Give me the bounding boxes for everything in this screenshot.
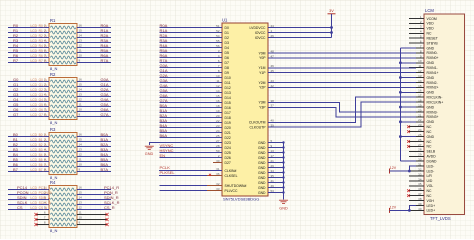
- svg-text:D19: D19: [225, 121, 231, 125]
- svg-text:LCM: LCM: [425, 8, 434, 13]
- svg-text:19: 19: [418, 103, 422, 107]
- svg-text:LCD_PC14_A: LCD_PC14_A: [31, 186, 52, 190]
- svg-text:D5: D5: [225, 51, 229, 55]
- wire R2 left pin 3 net G2: [8, 87, 49, 92]
- junction U1 GND pin 29: [282, 166, 284, 168]
- svg-text:12V: 12V: [390, 205, 397, 209]
- wire R1 left pin 2 net R1: [8, 28, 49, 33]
- svg-text:NC: NC: [427, 125, 432, 129]
- wire net VSYNC to U1 D24: [159, 143, 222, 148]
- op-amp U1 SN75LVDS83BDGG body: [222, 18, 268, 202]
- svg-text:GND: GND: [258, 146, 266, 150]
- no-connect pins R4 row 6: [34, 213, 108, 216]
- wire GND bus vertical at connector: [400, 48, 416, 161]
- svg-text:R4: R4: [50, 180, 56, 185]
- svg-text:PLKSEL: PLKSEL: [160, 170, 176, 175]
- svg-text:GND: GND: [279, 207, 288, 211]
- svg-text:GND: GND: [258, 166, 266, 170]
- wire Y3M to RXIN3- (jog down): [268, 102, 416, 112]
- svg-text:RESET: RESET: [427, 36, 438, 40]
- svg-text:LCD_R4_A: LCD_R4_A: [31, 44, 48, 48]
- svg-text:GND: GND: [258, 191, 266, 195]
- svg-text:LCD_B6_A: LCD_B6_A: [31, 163, 48, 167]
- svg-text:CLKSEL: CLKSEL: [225, 174, 238, 178]
- junction GND bus pin 25: [399, 135, 402, 138]
- svg-text:GND: GND: [427, 135, 435, 139]
- svg-text:G7: G7: [13, 112, 19, 117]
- svg-text:RXIN2+: RXIN2+: [427, 86, 439, 90]
- svg-text:GND: GND: [258, 171, 266, 175]
- junction U1 GND pin 41: [282, 181, 284, 183]
- svg-text:LCD_R7_A: LCD_R7_A: [31, 59, 48, 63]
- U1 left pin names and numbers: [216, 24, 246, 193]
- wire R3 right pin 10 net B6A: [77, 162, 111, 167]
- wire U1 GND bus: [268, 143, 284, 200]
- svg-text:39: 39: [418, 202, 422, 206]
- svg-text:D6: D6: [225, 56, 229, 60]
- wire R3 right pin 16 net B0A: [77, 132, 111, 137]
- svg-text:LCD_SCLK_A: LCD_SCLK_A: [31, 201, 52, 205]
- svg-text:D17: D17: [225, 111, 231, 115]
- wire 12V to LED- pins: [390, 166, 417, 171]
- wire R4 right pin 12 net CS_R: [77, 205, 115, 210]
- U1 right pin names and numbers: [249, 24, 274, 195]
- svg-text:GND: GND: [427, 61, 435, 65]
- wire R2 left pin 5 net G4: [8, 97, 49, 102]
- wire R1 right pin 12 net R4A: [77, 43, 111, 48]
- svg-text:CS: CS: [17, 205, 23, 210]
- wire U1 IOVCC pin26 to 3V: [268, 37, 332, 39]
- svg-text:D25: D25: [225, 151, 231, 155]
- svg-text:TFT_LVDS: TFT_LVDS: [430, 216, 451, 221]
- svg-text:D22: D22: [225, 136, 231, 140]
- svg-text:GND: GND: [258, 151, 266, 155]
- svg-text:LED-: LED-: [427, 169, 435, 173]
- svg-text:32: 32: [418, 167, 422, 171]
- wire R4 left pin 4 net SCLK: [8, 200, 52, 205]
- power port 3V: [328, 9, 336, 14]
- wire R3 left pin 6 net B5: [8, 157, 49, 162]
- svg-text:17: 17: [418, 94, 422, 98]
- svg-text:NC: NC: [427, 145, 432, 149]
- junction U1 GND pin 13: [282, 151, 284, 153]
- svg-text:D11: D11: [225, 81, 231, 85]
- junction U1 GND pin 49: [282, 186, 284, 188]
- wire R2 right pin 13 net G3A: [77, 92, 111, 97]
- svg-text:22: 22: [418, 118, 422, 122]
- wire R1 right pin 11 net R5A: [77, 48, 111, 53]
- wire R3 left pin 7 net B6: [8, 162, 49, 167]
- svg-text:8_N: 8_N: [50, 120, 57, 125]
- svg-text:16: 16: [418, 89, 422, 93]
- svg-text:37: 37: [418, 192, 422, 196]
- wire R1 right pin 13 net R3A: [77, 38, 111, 43]
- svg-text:D1: D1: [225, 31, 229, 35]
- svg-text:R7: R7: [13, 58, 19, 63]
- svg-text:LED-: LED-: [427, 164, 435, 168]
- svg-text:VCOM: VCOM: [427, 17, 437, 21]
- wire R1 left pin 6 net R5: [8, 48, 49, 53]
- no-connect pins R4 row 7: [34, 218, 108, 221]
- wire R2 left pin 4 net G3: [8, 92, 49, 97]
- svg-text:SN75LVDS83BDGG: SN75LVDS83BDGG: [223, 197, 259, 202]
- svg-text:18: 18: [418, 99, 422, 103]
- wire Y0P to connector: [268, 57, 416, 59]
- svg-text:LCD_G6_A: LCD_G6_A: [31, 108, 48, 112]
- wire R4 right pin 13 net SCLK_R: [77, 200, 120, 205]
- svg-text:RXIN0+: RXIN0+: [427, 56, 439, 60]
- svg-text:LCD_B1_A: LCD_B1_A: [31, 138, 48, 142]
- svg-text:U/D: U/D: [427, 179, 433, 183]
- svg-text:Y1P: Y1P: [259, 71, 266, 75]
- svg-text:LED+: LED+: [427, 204, 436, 208]
- junction U1 GND pin 9: [282, 146, 284, 148]
- svg-text:RXIN1-: RXIN1-: [427, 66, 438, 70]
- wire R4 left pin 2 net PCON: [8, 190, 53, 195]
- power port 12V for LED+: [390, 205, 397, 213]
- svg-text:LCD_R0_A: LCD_R0_A: [31, 24, 48, 28]
- junction 3V/LVDDVCC: [330, 26, 333, 29]
- svg-text:21: 21: [418, 113, 422, 117]
- svg-text:B7A: B7A: [101, 167, 109, 172]
- svg-text:GND: GND: [427, 91, 435, 95]
- wire CLKOUTP to RXCLKIN+ (jog up): [268, 102, 416, 127]
- power port 12V for LED-: [390, 166, 397, 173]
- svg-text:CLKOUTP: CLKOUTP: [249, 126, 266, 130]
- svg-text:CLKIN#: CLKIN#: [225, 169, 237, 173]
- junction U1 GND pin 53: [282, 191, 284, 193]
- svg-text:RXIN3-: RXIN3-: [427, 110, 438, 114]
- svg-text:D27: D27: [225, 161, 231, 165]
- svg-text:NC: NC: [427, 194, 432, 198]
- svg-text:RXIN0-: RXIN0-: [427, 51, 438, 55]
- bare pin D27: [213, 162, 222, 164]
- wire net HSYNC to U1 D25: [159, 148, 222, 153]
- svg-text:CLKOUTM: CLKOUTM: [249, 121, 266, 125]
- svg-text:D13: D13: [225, 91, 231, 95]
- wire U1 IOVCC pin1 to 3V: [268, 32, 332, 34]
- svg-text:LED+: LED+: [427, 209, 436, 213]
- svg-text:SHUTDOWN#: SHUTDOWN#: [225, 184, 247, 188]
- svg-text:R2: R2: [50, 72, 56, 77]
- svg-text:27: 27: [418, 143, 422, 147]
- wire Y2P to connector: [268, 86, 416, 88]
- wire R2 left pin 7 net G6: [8, 107, 49, 112]
- wire R3 left pin 8 net B7: [8, 167, 49, 172]
- wire R2 left pin 1 net G0: [8, 77, 49, 82]
- resistor network R3: [39, 127, 87, 180]
- wire R2 right pin 16 net G0A: [77, 77, 111, 82]
- svg-text:10: 10: [418, 59, 422, 63]
- connector J1 LCM body: [424, 8, 464, 221]
- svg-text:AVDD: AVDD: [427, 155, 437, 159]
- svg-text:VGL: VGL: [427, 184, 434, 188]
- svg-text:40: 40: [418, 207, 422, 211]
- wire net PCLK to U1 CLKIN#: [159, 165, 222, 170]
- wire R3 left pin 4 net B3: [8, 147, 49, 152]
- svg-text:D4: D4: [225, 46, 229, 50]
- svg-text:R7A: R7A: [101, 58, 109, 63]
- resistor network R1: [39, 18, 87, 71]
- junction U1 GND pin 34: [282, 171, 284, 173]
- wire R2 right pin 11 net G5A: [77, 102, 111, 107]
- wire R1 right pin 16 net R0A: [77, 23, 111, 28]
- svg-text:D23: D23: [225, 141, 231, 145]
- svg-text:33: 33: [418, 172, 422, 176]
- wire Y3P to RXIN3+ (jog down): [268, 107, 416, 117]
- svg-text:LCD_PCON_A: LCD_PCON_A: [31, 191, 53, 195]
- wire to U1 SHUTDOWN#: [159, 185, 222, 187]
- svg-text:L/R: L/R: [427, 174, 433, 178]
- ground symbol below U1: [279, 200, 288, 210]
- svg-text:LCD_G7_A: LCD_G7_A: [31, 113, 48, 117]
- junction GND bus pin 16: [399, 91, 402, 94]
- svg-text:36: 36: [418, 187, 422, 191]
- svg-text:LCD_B7_A: LCD_B7_A: [31, 168, 48, 172]
- svg-text:D16: D16: [225, 106, 231, 110]
- wire R1 left pin 5 net R4: [8, 43, 49, 48]
- wire R3 right pin 11 net B5A: [77, 157, 111, 162]
- svg-text:NC: NC: [427, 130, 432, 134]
- svg-text:STBYB: STBYB: [427, 41, 439, 45]
- svg-text:GND: GND: [258, 181, 266, 185]
- svg-text:R1: R1: [50, 18, 56, 23]
- wire R4 right pin 14 net SDIN_R: [77, 195, 119, 200]
- wire R1 right pin 10 net R6A: [77, 53, 111, 58]
- wire R4 left pin 3 net SDIN: [8, 195, 51, 200]
- svg-text:GND: GND: [427, 105, 435, 109]
- svg-text:Y0P: Y0P: [259, 56, 266, 60]
- wire R2 right pin 9 net G7A: [77, 112, 111, 117]
- svg-text:D7: D7: [225, 61, 229, 65]
- svg-text:12V: 12V: [390, 166, 397, 170]
- svg-text:RXCLKIN+: RXCLKIN+: [427, 100, 444, 104]
- svg-text:28: 28: [418, 148, 422, 152]
- wire R2 right pin 15 net G1A: [77, 82, 111, 87]
- svg-text:11: 11: [418, 64, 421, 68]
- svg-text:PLLVCC: PLLVCC: [225, 189, 238, 193]
- svg-text:8_N: 8_N: [50, 228, 57, 233]
- junction GND bus pin 13: [399, 76, 402, 79]
- svg-text:NC: NC: [427, 32, 432, 36]
- svg-text:LCD_G3_A: LCD_G3_A: [31, 93, 48, 97]
- svg-text:D2: D2: [225, 36, 229, 40]
- wire net PLKSEL to U1 CLKSEL: [159, 170, 222, 176]
- wire R3 right pin 12 net B4A: [77, 152, 111, 157]
- svg-text:8_N: 8_N: [50, 66, 57, 71]
- svg-text:30: 30: [418, 158, 422, 162]
- wire R2 right pin 10 net G6A: [77, 107, 111, 112]
- svg-text:D15: D15: [225, 101, 231, 105]
- svg-text:Y2P: Y2P: [259, 86, 266, 90]
- svg-text:23: 23: [418, 123, 422, 127]
- svg-text:GND: GND: [427, 46, 435, 50]
- svg-text:VDD: VDD: [427, 22, 435, 26]
- svg-text:RXIN3+: RXIN3+: [427, 115, 439, 119]
- svg-text:29: 29: [418, 153, 422, 157]
- svg-text:GND: GND: [427, 76, 435, 80]
- wire R3 left pin 5 net B4: [8, 152, 49, 157]
- wire Y2M to connector: [268, 82, 416, 84]
- svg-text:D18: D18: [225, 116, 231, 120]
- wire R2 left pin 6 net G5: [8, 102, 49, 107]
- svg-text:LCD_G5_A: LCD_G5_A: [31, 103, 48, 107]
- svg-text:D21: D21: [225, 131, 231, 135]
- svg-text:D0: D0: [225, 26, 229, 30]
- svg-text:D10: D10: [225, 76, 231, 80]
- wire U1 LVDDVCC to 3V: [268, 27, 332, 29]
- wire R1 left pin 4 net R3: [8, 38, 49, 43]
- wire to U1 PLLVCC: [159, 190, 222, 192]
- wire Y0M to connector: [268, 52, 416, 54]
- svg-text:LCD_R6_A: LCD_R6_A: [31, 54, 48, 58]
- wire R4 right pin 15 net PON_R: [77, 190, 118, 195]
- svg-text:LCD_SDIN_A: LCD_SDIN_A: [31, 196, 52, 200]
- ground symbol near D23: [145, 146, 154, 156]
- svg-text:14: 14: [418, 79, 422, 83]
- wire D23 to ground: [149, 143, 222, 146]
- wire R3 right pin 15 net B1A: [77, 137, 111, 142]
- no-connect pins R4 row 8: [34, 223, 108, 226]
- svg-text:VGH: VGH: [427, 199, 435, 203]
- svg-text:31: 31: [418, 163, 422, 167]
- svg-text:GND: GND: [427, 120, 435, 124]
- svg-text:GND: GND: [258, 156, 266, 160]
- svg-text:LCD_R1_A: LCD_R1_A: [31, 29, 48, 33]
- svg-text:26: 26: [418, 138, 422, 142]
- wire R3 right pin 13 net B3A: [77, 147, 111, 152]
- svg-text:3V: 3V: [329, 9, 334, 13]
- svg-text:LCD_G0_A: LCD_G0_A: [31, 78, 48, 82]
- wires from nets into U1 data pins D0-D22: [159, 23, 222, 138]
- svg-text:LCD_B0_A: LCD_B0_A: [31, 133, 48, 137]
- svg-text:Y0M: Y0M: [259, 51, 266, 55]
- svg-text:15: 15: [418, 84, 422, 88]
- junction U1 GND pin 17: [282, 156, 284, 158]
- svg-text:35: 35: [418, 182, 422, 186]
- junction U1 GND pin 35: [282, 176, 284, 178]
- svg-text:LCD_B2_A: LCD_B2_A: [31, 143, 48, 147]
- svg-text:RXIN1+: RXIN1+: [427, 71, 439, 75]
- wire R1 left pin 7 net R6: [8, 53, 49, 58]
- wire R2 right pin 14 net G2A: [77, 87, 111, 92]
- svg-text:G7A: G7A: [101, 112, 109, 117]
- svg-text:D9: D9: [225, 71, 229, 75]
- junction GND bus pin 10: [399, 61, 402, 64]
- svg-text:GND: GND: [258, 161, 266, 165]
- wire R3 left pin 1 net B0: [8, 132, 49, 137]
- svg-text:20: 20: [418, 108, 422, 112]
- svg-text:24: 24: [418, 128, 422, 132]
- junction U1 GND pin 21: [282, 161, 284, 163]
- wire R3 right pin 14 net B2A: [77, 142, 111, 147]
- svg-text:U1: U1: [222, 18, 228, 23]
- svg-text:34: 34: [418, 177, 422, 181]
- svg-text:D26: D26: [225, 156, 231, 160]
- svg-text:D3: D3: [225, 41, 229, 45]
- junction U1 GND pin 5: [282, 141, 284, 143]
- svg-text:GND: GND: [258, 176, 266, 180]
- wire net EN to U1 D26: [159, 153, 222, 158]
- junction 12V LED+: [408, 209, 411, 212]
- wire R2 left pin 8 net G7: [8, 112, 49, 117]
- wire 3V vertical rail: [331, 14, 333, 38]
- wire R1 left pin 3 net R2: [8, 33, 49, 38]
- svg-text:GND: GND: [258, 141, 266, 145]
- svg-text:NC: NC: [427, 189, 432, 193]
- wire Y1P to connector: [268, 72, 416, 74]
- junction 12V LED-: [408, 170, 411, 173]
- svg-text:LCD_B4_A: LCD_B4_A: [31, 153, 48, 157]
- wire CLKOUTM to RXCLKIN- (jog up): [268, 97, 416, 122]
- wire 12V to LED+ pins: [390, 205, 417, 210]
- svg-text:IOVCC: IOVCC: [255, 31, 266, 35]
- svg-text:SELB: SELB: [427, 150, 436, 154]
- svg-text:VDD: VDD: [427, 27, 435, 31]
- svg-text:LCD_G4_A: LCD_G4_A: [31, 98, 48, 102]
- wire R1 left pin 1 net R0: [8, 23, 49, 28]
- wire R2 right pin 12 net G4A: [77, 97, 111, 102]
- svg-text:25: 25: [418, 133, 422, 137]
- svg-text:12: 12: [418, 69, 422, 73]
- wire R4 left pin 1 net PC14: [8, 185, 51, 190]
- wire R4 right pin 16 net PC14_R: [77, 185, 119, 190]
- svg-text:LCD_CS_A: LCD_CS_A: [31, 206, 48, 210]
- svg-text:LCD_R5_A: LCD_R5_A: [31, 49, 48, 53]
- svg-text:10: 10: [79, 216, 83, 220]
- wire R1 right pin 9 net R7A: [77, 58, 111, 63]
- wire R4 left pin 5 net CS: [8, 205, 49, 210]
- svg-text:D24: D24: [225, 146, 231, 150]
- wire R1 left pin 8 net R7: [8, 58, 49, 63]
- svg-text:B6A: B6A: [160, 133, 168, 138]
- resistor network R4: [39, 180, 87, 233]
- svg-text:LCD_B5_A: LCD_B5_A: [31, 158, 48, 162]
- wire R1 right pin 15 net R1A: [77, 28, 111, 33]
- svg-text:LCD_R2_A: LCD_R2_A: [31, 34, 48, 38]
- svg-text:D12: D12: [225, 86, 231, 90]
- svg-text:38: 38: [418, 197, 422, 201]
- svg-text:IOVCC: IOVCC: [255, 36, 266, 40]
- svg-text:11: 11: [79, 211, 82, 215]
- svg-text:D20: D20: [225, 126, 231, 130]
- wire R2 left pin 2 net G1: [8, 82, 49, 87]
- svg-text:Y2M: Y2M: [259, 81, 266, 85]
- svg-text:GND: GND: [258, 186, 266, 190]
- svg-text:B7: B7: [13, 167, 19, 172]
- svg-text:D8: D8: [225, 66, 229, 70]
- junction GND bus pin 19: [399, 106, 402, 109]
- svg-text:LCD_G2_A: LCD_G2_A: [31, 88, 48, 92]
- svg-text:CS_R: CS_R: [104, 205, 115, 210]
- wire R1 right pin 14 net R2A: [77, 33, 111, 38]
- svg-text:RXCLKIN-: RXCLKIN-: [427, 96, 443, 100]
- svg-text:NC: NC: [427, 140, 432, 144]
- svg-text:R3: R3: [50, 127, 56, 132]
- wire R3 left pin 2 net B1: [8, 137, 49, 142]
- svg-text:13: 13: [418, 74, 422, 78]
- svg-text:LVDDVCC: LVDDVCC: [250, 26, 267, 30]
- svg-text:GND: GND: [145, 152, 154, 156]
- svg-text:LCD_R3_A: LCD_R3_A: [31, 39, 48, 43]
- wire R3 right pin 9 net B7A: [77, 167, 111, 172]
- wire R3 left pin 3 net B2: [8, 142, 49, 147]
- svg-text:DGND: DGND: [427, 159, 438, 163]
- svg-text:Y1M: Y1M: [259, 66, 266, 70]
- junction GND bus pin 22: [399, 120, 402, 123]
- svg-text:LCD_B3_A: LCD_B3_A: [31, 148, 48, 152]
- svg-text:Y3P: Y3P: [259, 106, 266, 110]
